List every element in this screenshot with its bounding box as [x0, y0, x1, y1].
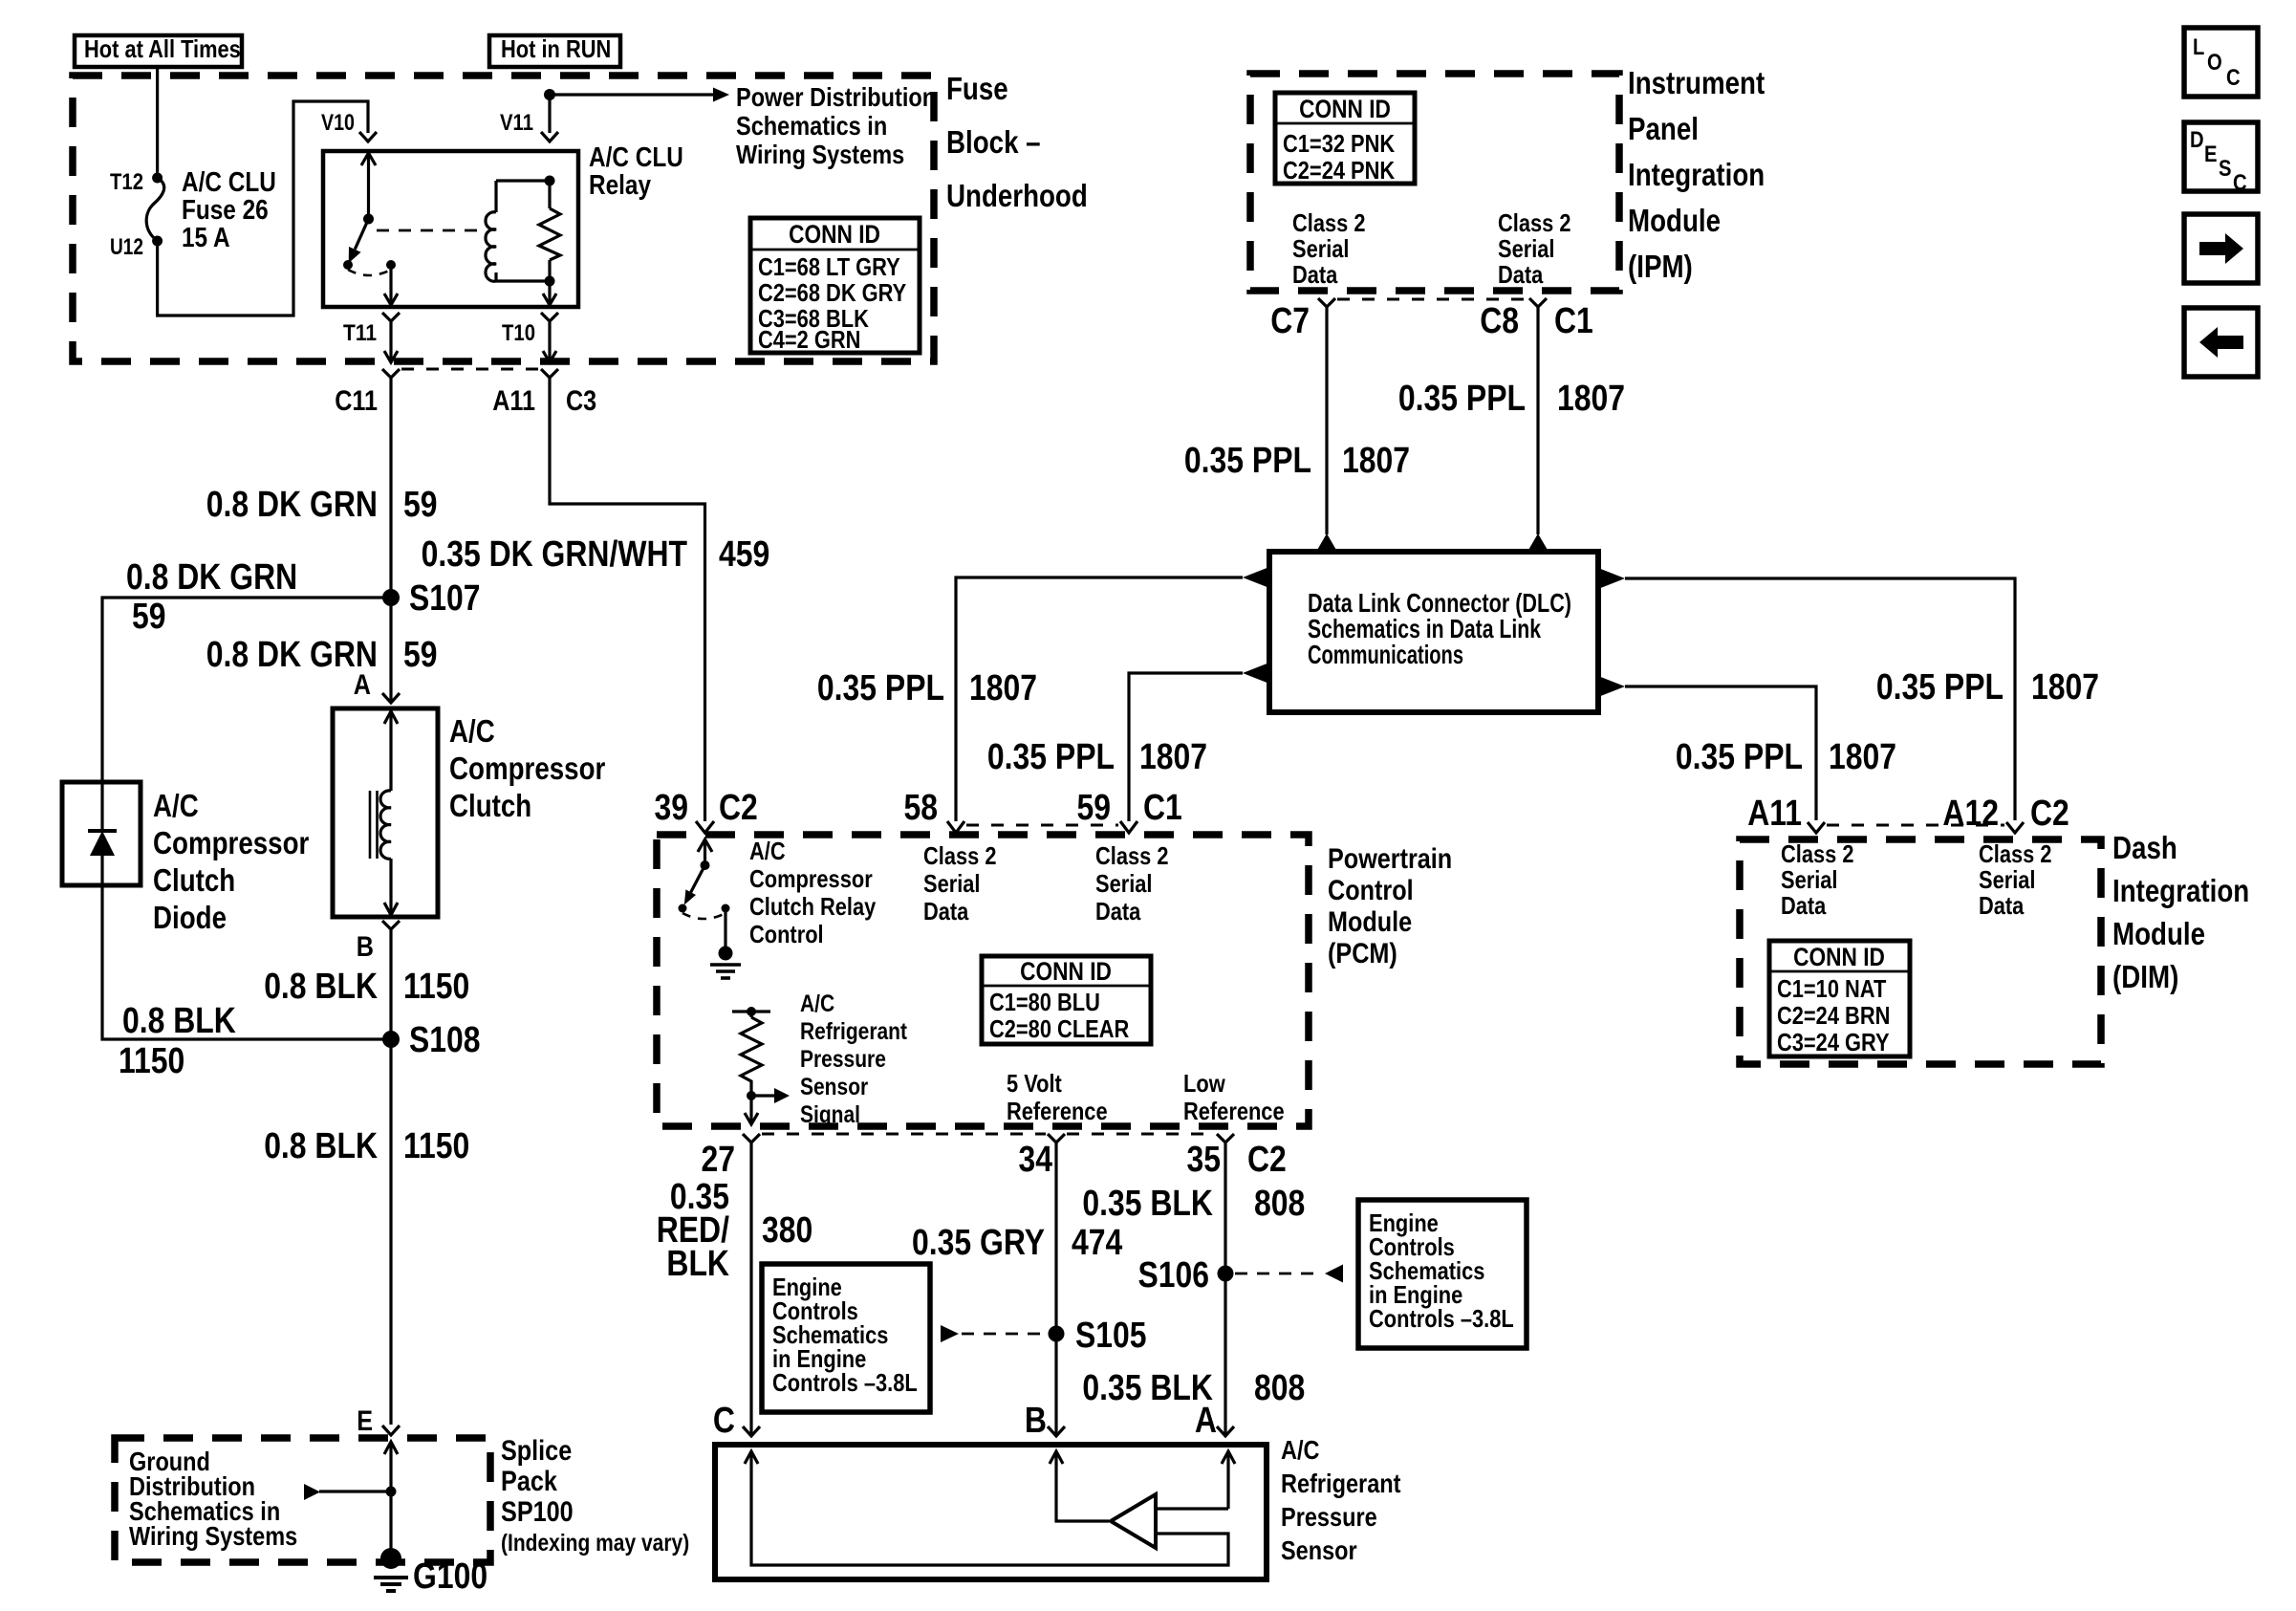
label Class 2 Serial Data (PCM 58): [923, 841, 997, 925]
svg-text:474: 474: [1072, 1223, 1122, 1263]
label Fuse Block - Underhood: [946, 71, 1088, 213]
connector pin 59: [1120, 821, 1137, 833]
data link connector box: [1269, 552, 1598, 712]
svg-text:Pressure: Pressure: [1281, 1502, 1377, 1532]
svg-text:0.8 BLK: 0.8 BLK: [264, 1126, 378, 1166]
svg-text:V10: V10: [321, 110, 355, 136]
DLC left lower arrowhead: [1243, 663, 1269, 684]
dash integration module dashed box: [1740, 839, 2101, 1064]
svg-text:0.8 BLK: 0.8 BLK: [264, 967, 378, 1007]
wire C8 to DLC: [1536, 318, 1539, 534]
svg-text:Clutch: Clutch: [449, 788, 531, 823]
label box "Hot at All Times": [75, 34, 242, 67]
svg-text:Module: Module: [1628, 203, 1721, 238]
wire diode to S108: [102, 885, 391, 1039]
svg-text:0.35 BLK: 0.35 BLK: [1082, 1184, 1213, 1224]
svg-text:Clutch Relay: Clutch Relay: [749, 892, 877, 921]
svg-text:0.35 PPL: 0.35 PPL: [1676, 737, 1803, 777]
label Data Link Connector (DLC) Schematics in Data Link Communications: [1308, 588, 1571, 669]
svg-text:C1=32 PNK: C1=32 PNK: [1283, 129, 1395, 158]
svg-text:S106: S106: [1138, 1255, 1210, 1295]
label 0.8 DK GRN 59 (upper): [206, 485, 438, 525]
label Class 2 Serial Data (IPM C8): [1498, 208, 1571, 289]
svg-text:Pack: Pack: [501, 1466, 557, 1497]
dashed reference wire to S105: [941, 1325, 1044, 1342]
connector row dashed line C11-A11: [401, 368, 539, 371]
svg-text:0.35 PPL: 0.35 PPL: [817, 668, 944, 708]
svg-text:59: 59: [403, 635, 438, 675]
label 0.35 PPL 1807 (A11 wire): [1676, 737, 1896, 777]
splice pack ground distribution arrow: [304, 1484, 391, 1500]
wire S107 branch to diode: [102, 598, 391, 782]
DLC left upper arrowhead: [1243, 567, 1269, 588]
svg-text:0.35 DK GRN/WHT: 0.35 DK GRN/WHT: [422, 534, 687, 575]
connector C7: [1318, 298, 1335, 318]
label Splice Pack SP100: [501, 1435, 689, 1557]
back nav box: [2184, 308, 2258, 377]
svg-text:Data: Data: [1095, 897, 1141, 925]
svg-text:34: 34: [1019, 1140, 1053, 1180]
wire from Hot at All Times down to fuse: [156, 67, 159, 178]
arrowhead C7 at DLC: [1316, 533, 1337, 552]
connector row dashed 58-59: [966, 824, 1118, 827]
svg-text:A/C CLU: A/C CLU: [589, 142, 683, 173]
svg-text:Reference: Reference: [1183, 1097, 1285, 1125]
engine controls reference box (right): [1358, 1200, 1527, 1348]
label A/C Refrigerant Pressure Sensor Signal: [800, 991, 908, 1128]
svg-text:A/C: A/C: [800, 991, 834, 1017]
svg-text:Serial: Serial: [1979, 865, 2036, 894]
PCM clutch relay control switch: [679, 839, 730, 919]
svg-text:Panel: Panel: [1628, 111, 1699, 146]
svg-text:V11: V11: [500, 110, 533, 136]
svg-text:Diode: Diode: [153, 900, 227, 935]
svg-text:15 A: 15 A: [182, 223, 230, 253]
relay switch arm: [349, 219, 369, 263]
connector T11 below relay: [382, 313, 400, 362]
svg-text:808: 808: [1254, 1184, 1305, 1224]
splice node S106: [1218, 1266, 1234, 1282]
svg-text:Signal: Signal: [800, 1101, 860, 1128]
svg-text:Hot in RUN: Hot in RUN: [501, 34, 611, 63]
label Class 2 Serial Data (PCM 59): [1095, 841, 1169, 925]
wire S108 to splice pack E: [389, 1039, 392, 1425]
connector pin 58: [947, 821, 964, 833]
wire pin 34 to sensor B: [1054, 1157, 1057, 1434]
svg-text:Sensor: Sensor: [800, 1074, 868, 1100]
svg-text:Compressor: Compressor: [749, 864, 873, 893]
svg-text:1807: 1807: [2031, 667, 2099, 708]
svg-text:A/C CLU: A/C CLU: [182, 167, 276, 198]
splice pack junction node: [386, 1487, 397, 1497]
svg-text:Refrigerant: Refrigerant: [800, 1018, 908, 1045]
wire C3 to PCM pin 39: [550, 378, 705, 821]
svg-text:Controls –3.8L: Controls –3.8L: [1369, 1304, 1514, 1333]
svg-text:0.35 BLK: 0.35 BLK: [1082, 1368, 1213, 1408]
A/C refrigerant pressure sensor box: [715, 1445, 1267, 1579]
svg-text:1150: 1150: [403, 967, 469, 1007]
label 0.35 RED/ BLK: [657, 1177, 730, 1284]
svg-text:Data: Data: [1498, 260, 1544, 289]
label box "Hot in RUN": [489, 34, 620, 67]
CONN ID table fuse block: [750, 218, 920, 354]
label Dash Integration Module (DIM): [2112, 830, 2249, 994]
svg-text:Compressor: Compressor: [449, 751, 605, 786]
sensor internal wire C: [745, 1451, 1228, 1565]
svg-text:1807: 1807: [1342, 441, 1410, 481]
svg-text:1807: 1807: [1829, 737, 1896, 777]
connector sensor A: [1217, 1426, 1234, 1436]
svg-text:U12: U12: [110, 234, 143, 260]
svg-text:Powertrain: Powertrain: [1328, 843, 1452, 875]
svg-text:A: A: [354, 669, 371, 701]
label A/C Compressor Clutch Diode: [153, 788, 309, 935]
svg-text:B: B: [357, 931, 374, 963]
clutch coil: [370, 791, 391, 859]
label Ground Distribution Schematics in Wiring Systems: [129, 1447, 297, 1551]
svg-text:Module: Module: [2112, 916, 2205, 951]
relay coil output wire T10 with down arrow: [543, 281, 556, 305]
svg-text:Module: Module: [1328, 906, 1412, 938]
relay switch common wire with up arrow: [361, 153, 376, 225]
svg-text:C3: C3: [566, 385, 596, 417]
svg-text:Integration: Integration: [1628, 157, 1765, 192]
label 0.35 PPL 1807 (C8 wire): [1398, 379, 1625, 419]
svg-text:L: L: [2193, 34, 2204, 60]
dashed reference wire from S106: [1235, 1265, 1343, 1283]
svg-text:T12: T12: [110, 169, 143, 195]
svg-text:G100: G100: [413, 1557, 487, 1597]
svg-text:0.35 PPL: 0.35 PPL: [1184, 441, 1311, 481]
connector B: [382, 921, 400, 942]
svg-text:1150: 1150: [403, 1126, 469, 1166]
svg-text:B: B: [1025, 1401, 1047, 1441]
svg-text:59: 59: [132, 597, 166, 637]
connector A11/C3 below fuse block: [541, 369, 558, 378]
diode symbol: [88, 782, 117, 885]
label 5 Volt Reference: [1007, 1069, 1108, 1125]
label A/C CLU Relay: [589, 142, 683, 201]
svg-text:C2=24 BRN: C2=24 BRN: [1777, 1001, 1890, 1030]
label Class 2 Serial Data (DIM A12): [1979, 839, 2052, 920]
svg-text:Hot at All Times: Hot at All Times: [84, 34, 241, 63]
svg-text:S108: S108: [409, 1020, 481, 1060]
label 0.35 PPL 1807 (C7 wire): [1184, 441, 1410, 481]
svg-text:C1=10 NAT: C1=10 NAT: [1777, 974, 1886, 1003]
wire DLC to PCM pin 59: [1129, 673, 1243, 821]
svg-text:Control: Control: [1328, 875, 1414, 906]
svg-text:E: E: [2204, 142, 2218, 167]
connector V10: [359, 132, 377, 142]
label Class 2 Serial Data (IPM C7): [1292, 208, 1366, 289]
svg-text:808: 808: [1254, 1368, 1305, 1408]
PCM signal wire to pin 27: [745, 1090, 758, 1124]
svg-text:Underhood: Underhood: [946, 178, 1088, 213]
svg-text:A: A: [1195, 1401, 1217, 1441]
svg-text:C2: C2: [2030, 794, 2069, 834]
svg-text:C: C: [2226, 65, 2241, 91]
svg-text:Splice: Splice: [501, 1435, 572, 1467]
A/C compressor clutch box: [333, 708, 438, 917]
wire V11 from junction into relay: [548, 95, 551, 133]
sensor internal wire B: [1050, 1451, 1109, 1521]
svg-text:Class 2: Class 2: [923, 841, 997, 870]
svg-text:BLK: BLK: [666, 1244, 729, 1284]
wire clutch B to S108: [389, 942, 392, 1039]
connector C11 below fuse block: [382, 369, 400, 378]
connector pin 34: [1048, 1134, 1065, 1157]
svg-text:Controls –3.8L: Controls –3.8L: [772, 1368, 918, 1397]
relay coil: [486, 181, 550, 281]
svg-text:Data: Data: [923, 897, 969, 925]
svg-text:Compressor: Compressor: [153, 825, 309, 860]
svg-text:Wiring Systems: Wiring Systems: [129, 1521, 297, 1551]
label 0.35 BLK 808 (upper): [1082, 1184, 1305, 1224]
label 0.35 PPL 1807 (A12 wire): [1876, 667, 2099, 708]
svg-text:Instrument: Instrument: [1628, 65, 1765, 100]
label Power Distribution Schematics in Wiring Systems: [736, 82, 936, 169]
svg-text:Data: Data: [1979, 891, 2025, 920]
svg-text:0.8 BLK: 0.8 BLK: [122, 1001, 236, 1041]
svg-text:Fuse: Fuse: [946, 71, 1008, 106]
fuse block underhood dashed box: [73, 76, 934, 361]
loc nav box: [2184, 28, 2258, 97]
wire S107 to clutch pin A: [389, 598, 392, 701]
svg-text:(DIM): (DIM): [2112, 959, 2178, 994]
svg-text:35: 35: [1187, 1140, 1222, 1180]
label 0.35 GRY 474: [912, 1223, 1122, 1263]
label 0.8 BLK 1150 (upper): [264, 967, 469, 1007]
label A/C Compressor Clutch Relay Control: [749, 837, 877, 948]
svg-text:S107: S107: [409, 578, 481, 619]
svg-text:A/C: A/C: [1281, 1435, 1320, 1465]
svg-text:C7: C7: [1270, 301, 1310, 341]
splice pack internal wire: [384, 1442, 398, 1557]
svg-text:S: S: [2219, 156, 2232, 182]
connector V11: [541, 132, 558, 142]
svg-text:C2=24 PNK: C2=24 PNK: [1283, 156, 1395, 185]
connector A12/C2 (DIM): [2006, 822, 2024, 833]
wire DLC to PCM pin 58: [956, 577, 1243, 821]
svg-text:Class 2: Class 2: [1781, 839, 1854, 868]
svg-text:Refrigerant: Refrigerant: [1281, 1469, 1401, 1498]
svg-text:A/C: A/C: [749, 837, 786, 865]
svg-text:27: 27: [702, 1140, 736, 1180]
PCM pressure sensor pull-up resistor: [732, 1007, 770, 1090]
relay A/C CLU box: [323, 151, 578, 307]
svg-text:C2=68 DK GRY: C2=68 DK GRY: [758, 278, 906, 307]
arrowhead power distribution: [713, 88, 729, 102]
wire C11 to S107: [389, 378, 392, 598]
svg-text:5 Volt: 5 Volt: [1007, 1069, 1062, 1098]
splice node S108: [382, 1031, 400, 1048]
svg-text:D: D: [2190, 127, 2204, 153]
svg-text:Serial: Serial: [923, 869, 981, 898]
wire DLC to DIM pin A12: [1625, 578, 2015, 820]
svg-text:Fuse 26: Fuse 26: [182, 195, 269, 226]
svg-text:Power Distribution: Power Distribution: [736, 82, 936, 112]
connector row dashed 27-34-35: [762, 1133, 1215, 1136]
wire DLC to DIM pin A11: [1625, 686, 1816, 820]
desc nav box: [2184, 122, 2258, 196]
PCM sensor signal tap: [747, 1088, 790, 1103]
PCM switch ground: [710, 908, 741, 978]
svg-text:1807: 1807: [1139, 737, 1207, 777]
connector T10 below relay: [541, 313, 558, 362]
svg-text:Schematics in: Schematics in: [736, 111, 887, 141]
connector A: [382, 693, 400, 703]
svg-text:0.35 PPL: 0.35 PPL: [987, 737, 1115, 777]
wire to power distribution reference: [550, 93, 713, 96]
svg-text:S105: S105: [1075, 1316, 1147, 1356]
label 0.35 BLK 808 (lower): [1082, 1368, 1305, 1408]
wire pin 27 to sensor C: [749, 1157, 752, 1434]
label A/C Compressor Clutch: [449, 713, 605, 823]
label Class 2 Serial Data (DIM A11): [1781, 839, 1854, 920]
connector row dashed C7-C8: [1337, 298, 1527, 301]
label 0.35 PPL 1807 (59 wire): [987, 737, 1207, 777]
svg-text:(Indexing may vary): (Indexing may vary): [501, 1530, 689, 1557]
svg-text:Class 2: Class 2: [1095, 841, 1169, 870]
svg-text:T11: T11: [343, 320, 377, 346]
svg-text:C1=80 BLU: C1=80 BLU: [989, 988, 1100, 1016]
connector E: [382, 1426, 400, 1435]
svg-text:C: C: [2233, 170, 2247, 196]
CONN ID table PCM: [982, 956, 1151, 1044]
forward nav box: [2184, 214, 2258, 283]
svg-text:Low: Low: [1183, 1069, 1225, 1098]
svg-text:C1: C1: [1554, 301, 1593, 341]
label A/C Refrigerant Pressure Sensor: [1281, 1435, 1401, 1565]
svg-text:Pressure: Pressure: [800, 1046, 886, 1073]
wire C7 to DLC: [1325, 318, 1328, 534]
instrument panel integration module dashed box: [1250, 74, 1619, 291]
relay switch contacts: [343, 260, 396, 275]
svg-text:459: 459: [719, 534, 769, 575]
label Powertrain Control Module (PCM): [1328, 843, 1452, 969]
connector sensor B: [1048, 1426, 1065, 1436]
svg-text:0.35 PPL: 0.35 PPL: [1876, 667, 2004, 708]
svg-text:Serial: Serial: [1095, 869, 1153, 898]
connector C8/C1: [1529, 298, 1547, 318]
svg-text:C: C: [713, 1401, 735, 1441]
svg-text:1150: 1150: [119, 1041, 184, 1081]
label 0.35 PPL 1807 (58 wire): [817, 668, 1037, 708]
svg-text:O: O: [2207, 50, 2222, 76]
svg-text:CONN ID: CONN ID: [1020, 957, 1112, 986]
svg-text:SP100: SP100: [501, 1496, 574, 1528]
svg-text:1807: 1807: [969, 668, 1037, 708]
label Instrument Panel Integration Module (IPM): [1628, 65, 1765, 284]
svg-text:C3=24 GRY: C3=24 GRY: [1777, 1028, 1890, 1056]
relay switch output wire T11 with down arrow: [384, 265, 398, 305]
svg-text:Serial: Serial: [1498, 234, 1555, 263]
svg-text:0.8 DK GRN: 0.8 DK GRN: [126, 557, 297, 598]
svg-text:380: 380: [762, 1210, 812, 1251]
junction node on V11 wire: [544, 89, 555, 100]
svg-text:CONN ID: CONN ID: [789, 220, 880, 249]
ground G100: [374, 1548, 408, 1591]
svg-text:39: 39: [655, 788, 689, 828]
svg-text:0.8 DK GRN: 0.8 DK GRN: [206, 635, 378, 675]
svg-text:C2=80 CLEAR: C2=80 CLEAR: [989, 1014, 1129, 1043]
clutch coil internal wire with arrows: [384, 710, 398, 915]
svg-text:(PCM): (PCM): [1328, 938, 1397, 969]
label 0.8 BLK 1150 (lower): [264, 1126, 469, 1166]
svg-text:Reference: Reference: [1007, 1097, 1108, 1125]
svg-text:C2: C2: [1247, 1140, 1287, 1180]
A/C compressor clutch diode box: [62, 782, 141, 885]
engine controls reference box (left): [762, 1264, 930, 1412]
connector A11 (DIM): [1808, 822, 1825, 833]
svg-text:(IPM): (IPM): [1628, 249, 1693, 284]
svg-text:Integration: Integration: [2112, 873, 2249, 908]
wire from fuse U12 to relay pin V10: [158, 101, 368, 316]
svg-text:Control: Control: [749, 920, 824, 948]
svg-text:C2: C2: [719, 788, 758, 828]
svg-text:Sensor: Sensor: [1281, 1535, 1357, 1565]
svg-text:Wiring Systems: Wiring Systems: [736, 140, 904, 169]
svg-text:Relay: Relay: [589, 170, 651, 201]
svg-text:T10: T10: [502, 320, 535, 346]
connector pin 27: [743, 1134, 760, 1157]
svg-text:59: 59: [1077, 788, 1112, 828]
connector pin 35: [1217, 1134, 1234, 1157]
connector pin 39: [696, 821, 714, 833]
svg-text:A11: A11: [492, 385, 535, 417]
svg-text:Communications: Communications: [1308, 640, 1463, 669]
svg-text:C1: C1: [1143, 788, 1182, 828]
relay actuation dashed link: [377, 229, 483, 232]
svg-text:CONN ID: CONN ID: [1793, 943, 1885, 971]
label Low Reference: [1183, 1069, 1285, 1125]
sensor amplifier triangle: [1111, 1494, 1156, 1548]
svg-text:C1=68 LT GRY: C1=68 LT GRY: [758, 252, 900, 281]
svg-text:A12: A12: [1942, 794, 1999, 834]
svg-text:C11: C11: [335, 385, 378, 417]
svg-text:1807: 1807: [1557, 379, 1625, 419]
svg-text:Class 2: Class 2: [1498, 208, 1571, 237]
svg-text:Data: Data: [1292, 260, 1338, 289]
connector sensor C: [743, 1426, 760, 1436]
sensor internal wire A: [1156, 1451, 1235, 1509]
CONN ID table DIM: [1769, 941, 1910, 1056]
svg-text:Serial: Serial: [1781, 865, 1838, 894]
splice pack dashed box: [115, 1438, 490, 1562]
arrowhead C8 at DLC: [1527, 533, 1549, 552]
label A/C CLU Fuse 26 15 A: [182, 167, 276, 253]
splice node S105: [1049, 1326, 1065, 1342]
svg-text:0.35 PPL: 0.35 PPL: [1398, 379, 1526, 419]
DLC right upper arrowhead: [1598, 568, 1625, 589]
svg-text:Dash: Dash: [2112, 830, 2177, 865]
fuse F26 A/C CLU 15A: [146, 173, 164, 247]
svg-text:Clutch: Clutch: [153, 862, 235, 898]
label 0.8 DK GRN 59 (lower): [206, 635, 438, 675]
svg-text:C8: C8: [1480, 301, 1519, 341]
svg-text:CONN ID: CONN ID: [1299, 95, 1391, 123]
svg-text:Class 2: Class 2: [1292, 208, 1366, 237]
svg-text:Data: Data: [1781, 891, 1827, 920]
svg-text:0.35 GRY: 0.35 GRY: [912, 1223, 1045, 1263]
DLC right lower arrowhead: [1598, 676, 1625, 697]
connector row dashed A11-A12: [1827, 824, 2004, 827]
CONN ID table IPM: [1275, 93, 1415, 185]
svg-text:A/C: A/C: [449, 713, 495, 749]
svg-text:C4=2 GRN: C4=2 GRN: [758, 325, 860, 354]
svg-text:A/C: A/C: [153, 788, 199, 823]
label 0.35 DK GRN/WHT 459: [422, 534, 770, 575]
